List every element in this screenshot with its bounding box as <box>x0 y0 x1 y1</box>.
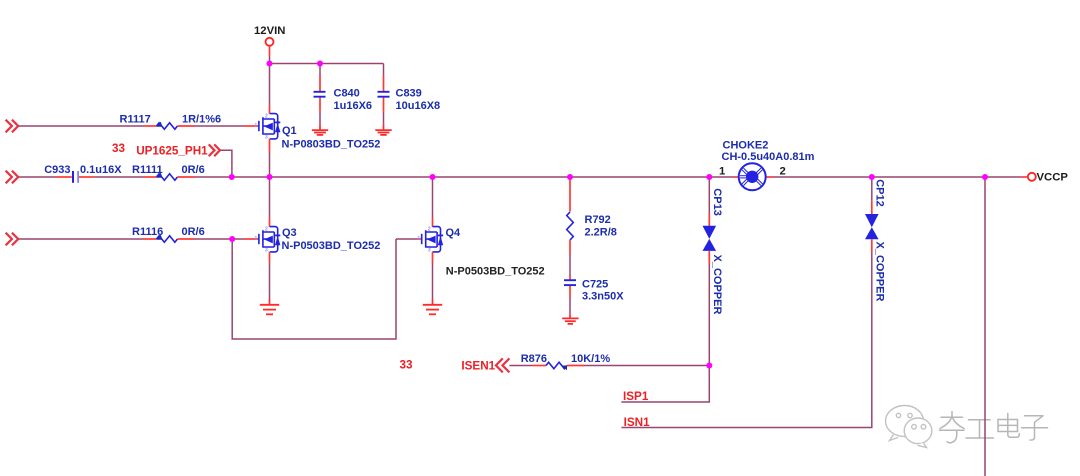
wire row1 left segment <box>18 125 143 127</box>
capacitor C933 <box>56 171 94 183</box>
wire CP12 down to ISN1 <box>621 252 871 427</box>
pin Q3 source <box>269 252 271 263</box>
wire R792 to C725 <box>569 254 571 277</box>
wire mid rail right of choke <box>774 176 1022 178</box>
copper CP12 <box>865 177 879 252</box>
svg-text:2: 2 <box>780 166 786 178</box>
svg-text:1R/1%6: 1R/1%6 <box>182 114 221 126</box>
wire Q1 drain vertical <box>269 64 271 106</box>
wire 12VIN vertical to top rail <box>269 56 271 64</box>
svg-text:0R/6: 0R/6 <box>182 164 205 176</box>
svg-text:R1117: R1117 <box>120 114 151 126</box>
resistor R792 <box>567 177 574 254</box>
wire mid rail <box>195 176 734 178</box>
ground under Q3 <box>260 305 279 315</box>
wire row3 to Q3 gate <box>195 238 245 240</box>
resistor R1117 <box>144 125 157 127</box>
wire CP13 down to ISP1 node <box>708 264 710 366</box>
wire Q1 source to mid rail <box>269 152 271 177</box>
transistor Q4 <box>417 227 443 254</box>
off-page connector ISEN1 <box>496 358 510 372</box>
svg-text:C839: C839 <box>396 88 422 100</box>
wire VCCP branch down <box>984 177 986 476</box>
copper CP13 <box>703 177 717 264</box>
watermark logo wechat bubbles <box>886 406 932 448</box>
svg-text:12VIN: 12VIN <box>254 25 285 37</box>
wire Q4 drain vertical <box>432 177 434 218</box>
svg-text:ISN1: ISN1 <box>624 416 650 429</box>
capacitor C840 <box>314 64 326 130</box>
pin Q4 drain <box>432 218 434 227</box>
svg-text:3.3n50X: 3.3n50X <box>582 291 624 303</box>
pin stub from 12VIN port <box>269 46 271 56</box>
capacitor C725 <box>564 277 576 298</box>
svg-text:33: 33 <box>112 142 126 155</box>
svg-text:UP1625_PH1: UP1625_PH1 <box>136 144 208 157</box>
capacitor C839 <box>378 64 390 130</box>
svg-text:10K/1%: 10K/1% <box>571 353 610 365</box>
svg-text:2.2R/8: 2.2R/8 <box>585 226 617 238</box>
svg-text:N-P0503BD_TO252: N-P0503BD_TO252 <box>282 240 381 252</box>
svg-text:C725: C725 <box>582 279 608 291</box>
svg-text:ISEN1: ISEN1 <box>461 359 495 372</box>
pin Q1 source <box>269 139 271 152</box>
svg-text:10u16X8: 10u16X8 <box>396 100 441 112</box>
svg-text:N-P0803BD_TO252: N-P0803BD_TO252 <box>282 139 381 151</box>
wire Q3 drain vertical <box>269 177 271 218</box>
wire row1 to Q1 gate <box>195 125 245 127</box>
off-page connector UP1625_PH1 <box>209 144 220 156</box>
svg-text:33: 33 <box>400 359 414 372</box>
svg-text:Q1: Q1 <box>282 125 297 137</box>
wire Q3 source to ground <box>269 263 271 299</box>
svg-text:Q3: Q3 <box>282 227 297 239</box>
svg-text:C840: C840 <box>334 88 360 100</box>
wire Q4 source to ground <box>432 263 434 299</box>
svg-text:R876: R876 <box>521 353 547 365</box>
transistor Q1 <box>245 114 281 141</box>
svg-text:1: 1 <box>719 166 725 178</box>
power port VCCP <box>1028 173 1036 181</box>
svg-text:1u16X6: 1u16X6 <box>334 100 373 112</box>
off-page connector row2 <box>6 171 19 184</box>
ground under C725 <box>562 318 578 324</box>
ground under C840 <box>312 130 328 135</box>
svg-text:VCCP: VCCP <box>1037 172 1069 184</box>
watermark text li gong dian zi <box>940 412 1048 443</box>
wire gate loop Q3 to Q4 <box>232 239 396 339</box>
svg-text:CP12: CP12 <box>873 179 885 207</box>
wire row2 between C933 and R1111 <box>94 176 143 178</box>
ground under Q4 <box>423 305 442 315</box>
wire C725 to ground <box>569 298 571 315</box>
resistor R876 <box>509 362 584 370</box>
wire row3 left <box>18 238 143 240</box>
svg-text:0R/6: 0R/6 <box>182 226 205 238</box>
svg-text:CP13: CP13 <box>711 188 723 216</box>
inductor CHOKE2 <box>734 163 774 190</box>
svg-text:R1111: R1111 <box>132 164 163 176</box>
wire R876 to node <box>584 365 709 367</box>
svg-text:X_COPPER: X_COPPER <box>873 242 885 302</box>
svg-text:ISP1: ISP1 <box>623 390 649 403</box>
pin stub VCCP <box>1021 176 1027 178</box>
svg-text:C933: C933 <box>44 164 70 176</box>
pin Q4 source <box>432 252 434 263</box>
pin Q3 drain <box>269 218 271 227</box>
wire ISP1 <box>621 366 709 403</box>
wire top rail horizontal <box>270 63 384 65</box>
svg-text:CHOKE2: CHOKE2 <box>723 139 769 151</box>
resistor R1116 <box>144 238 157 240</box>
off-page connector row1 <box>6 120 19 133</box>
svg-text:N-P0503BD_TO252: N-P0503BD_TO252 <box>446 266 545 278</box>
svg-text:Q4: Q4 <box>446 227 462 239</box>
svg-text:0.1u16X: 0.1u16X <box>80 164 122 176</box>
svg-text:CH-0.5u40A0.81m: CH-0.5u40A0.81m <box>722 151 815 163</box>
svg-text:X_COPPER: X_COPPER <box>711 255 723 315</box>
pin Q1 drain <box>269 105 271 114</box>
off-page connector row3 <box>6 233 19 246</box>
wire UP1625_PH1 to mid rail <box>220 150 232 177</box>
svg-text:R792: R792 <box>585 214 611 226</box>
svg-text:R1116: R1116 <box>132 226 163 238</box>
ground under C839 <box>375 130 391 135</box>
wire row2 left <box>18 176 56 178</box>
junction node dots <box>229 61 988 369</box>
transistor Q3 <box>245 227 281 254</box>
resistor R1111 <box>144 176 157 178</box>
